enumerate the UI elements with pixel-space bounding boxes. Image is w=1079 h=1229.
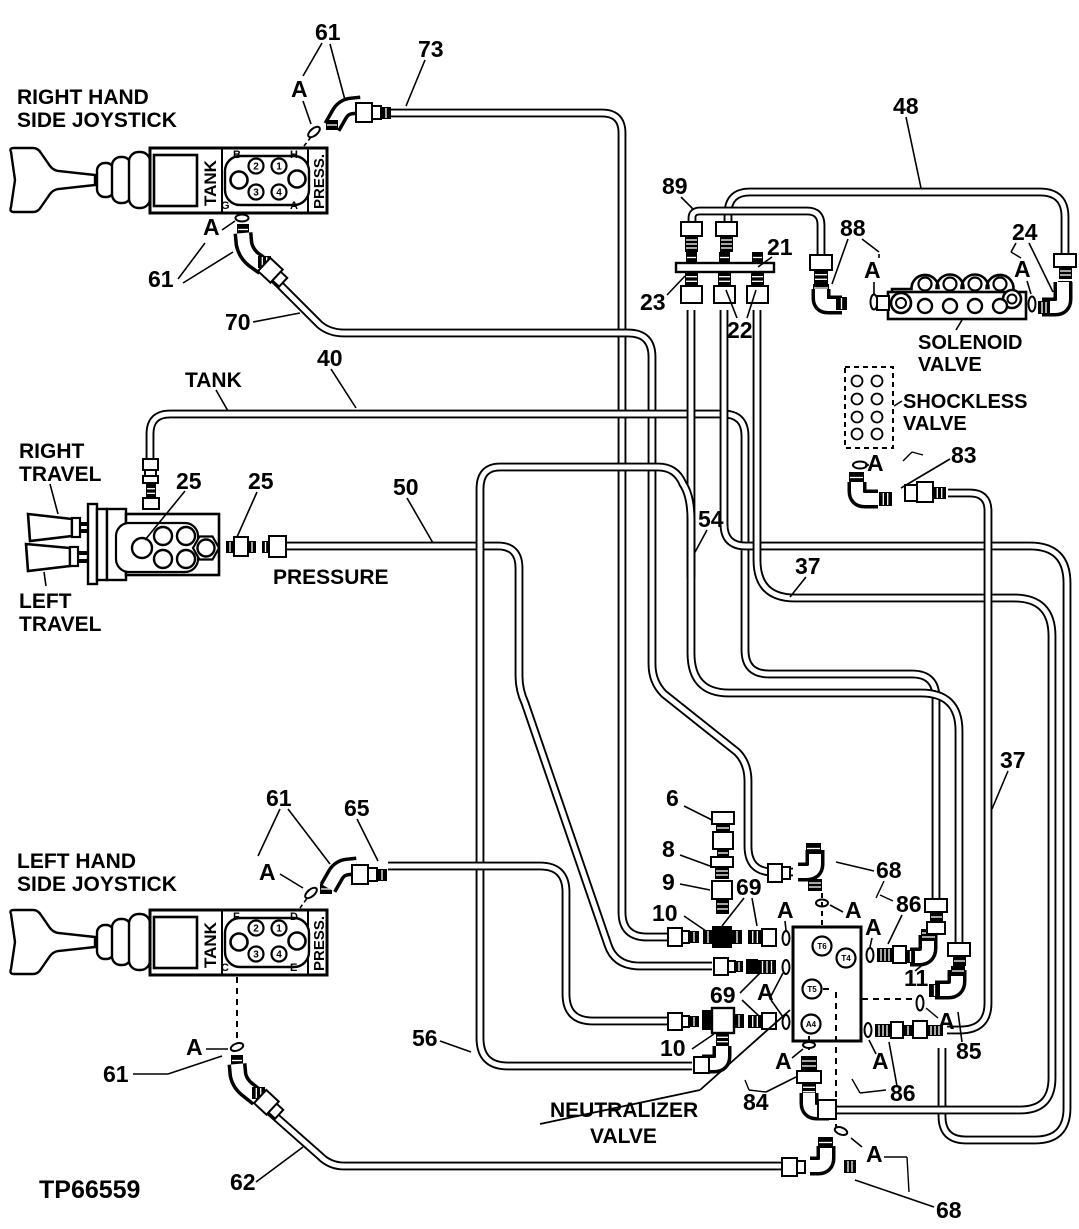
dashed T5 to oring right: [862, 998, 914, 1000]
o-ring A (rh top): [306, 125, 321, 139]
svg-text:A: A: [290, 200, 298, 212]
o-ring A (row3): [783, 1015, 790, 1029]
svg-text:24: 24: [1012, 219, 1038, 245]
fitting 10 stem: [716, 899, 729, 914]
svg-text:A: A: [259, 859, 276, 885]
hose 65: [388, 866, 670, 1021]
svg-text:LEFT HAND: LEFT HAND: [17, 850, 136, 873]
elbow fitting 68 (upper): [798, 843, 822, 891]
svg-text:37: 37: [1000, 747, 1026, 773]
elbow fitting 24: [1038, 282, 1063, 314]
solenoid valve left port: [877, 296, 889, 310]
svg-text:23: 23: [640, 289, 666, 315]
svg-text:VALVE: VALVE: [903, 413, 967, 435]
dashed to T6: [821, 893, 823, 927]
svg-text:54: 54: [698, 506, 724, 532]
o-ring A (86b): [865, 1023, 872, 1037]
svg-text:89: 89: [662, 173, 688, 199]
right travel pedal: [28, 514, 90, 541]
svg-text:50: 50: [393, 474, 419, 500]
joystick valve block: [150, 910, 327, 975]
svg-text:61: 61: [103, 1061, 129, 1087]
svg-text:PRESS.: PRESS.: [311, 154, 328, 209]
fitting stack above manifold (hose 89 end): [681, 222, 702, 252]
manifold bar 21: [676, 252, 774, 303]
dashed stem lh top: [300, 897, 308, 908]
neutralizer valve block: [793, 927, 861, 1041]
travel valve body: [107, 509, 219, 580]
svg-text:A: A: [864, 257, 881, 283]
hose 37: [757, 310, 1052, 1110]
fitting 8: [711, 857, 733, 879]
hose 70 end nuts: [768, 864, 790, 882]
svg-text:A: A: [186, 1034, 203, 1060]
hose 54: [724, 310, 1067, 1140]
tee fitting 10 (row1): [703, 926, 742, 948]
svg-text:21: 21: [767, 234, 793, 260]
elbow fitting 85: [929, 966, 965, 997]
svg-text:4: 4: [276, 950, 282, 961]
fitting 9: [712, 881, 732, 899]
o-ring A (88): [871, 295, 878, 310]
fitting stack above manifold (hose 48 end): [716, 222, 737, 252]
dashed stem rh top: [304, 137, 311, 146]
tee fitting 10 (row3, black): [702, 1008, 744, 1033]
svg-text:A: A: [866, 1141, 883, 1167]
elbow fitting 68 (lower): [810, 1137, 856, 1173]
svg-text:3: 3: [253, 188, 259, 199]
svg-text:6: 6: [666, 785, 679, 811]
svg-text:A: A: [775, 1048, 792, 1074]
svg-text:A: A: [867, 450, 884, 476]
hose 56: [480, 467, 692, 1066]
joystick handle: [10, 148, 95, 212]
joystick handle: [10, 910, 95, 974]
tee 10 stem down + elbow 56: [694, 1033, 729, 1073]
elbow fitting 83: [849, 472, 892, 506]
svg-text:61: 61: [315, 19, 341, 45]
svg-text:73: 73: [418, 36, 444, 62]
svg-text:22: 22: [727, 317, 753, 343]
svg-text:T6: T6: [817, 942, 827, 951]
svg-text:68: 68: [936, 1197, 962, 1223]
joystick valve block: [150, 148, 327, 213]
joystick bellows: [97, 152, 150, 208]
o-ring A (85): [917, 996, 924, 1011]
svg-text:83: 83: [951, 442, 977, 468]
svg-text:TRAVEL: TRAVEL: [19, 613, 102, 636]
svg-text:F: F: [233, 911, 240, 923]
svg-text:D: D: [290, 911, 298, 923]
o-ring A (lh bottom): [230, 1041, 245, 1052]
hose 40 tank: [150, 414, 936, 899]
o-ring A (86a): [867, 948, 874, 962]
svg-text:9: 9: [662, 869, 675, 895]
svg-text:LEFT: LEFT: [19, 590, 72, 613]
fitting 84 stack: [797, 1056, 821, 1096]
svg-text:56: 56: [412, 1025, 438, 1051]
svg-text:70: 70: [225, 309, 251, 335]
svg-text:H: H: [290, 149, 298, 161]
svg-text:2: 2: [253, 924, 259, 935]
svg-text:85: 85: [956, 1038, 982, 1064]
o-ring A (84): [803, 1042, 815, 1048]
travel valve ports: [116, 523, 219, 572]
o-ring A (row2): [783, 960, 790, 974]
hose 62 end nuts: [782, 1158, 805, 1176]
o-ring A (rh bottom): [236, 215, 249, 222]
elbow fitting 88: [813, 284, 847, 310]
left travel pedal: [26, 544, 90, 571]
svg-text:37: 37: [795, 553, 821, 579]
svg-text:1: 1: [276, 162, 282, 173]
fitting 86 (upper): [877, 946, 906, 963]
hose-end nuts 70: [258, 258, 289, 289]
svg-text:86: 86: [890, 1080, 916, 1106]
svg-text:B: B: [233, 149, 241, 161]
hose 70: [272, 277, 793, 872]
elbow fitting 61 (rh top): [326, 105, 361, 130]
svg-text:A: A: [845, 897, 862, 923]
svg-text:RIGHT: RIGHT: [19, 440, 85, 463]
row2 union fitting: [714, 958, 743, 975]
o-ring A (row1): [783, 931, 790, 945]
travel valve flange: [88, 504, 107, 584]
svg-text:VALVE: VALVE: [918, 354, 982, 376]
dashed T5 line: [823, 989, 836, 1128]
hose 62: [268, 1110, 782, 1166]
svg-text:11: 11: [904, 965, 929, 991]
hose 83 end nuts: [905, 482, 946, 502]
svg-text:RIGHT HAND: RIGHT HAND: [17, 86, 149, 109]
fitting 69 (row2, black): [746, 959, 776, 974]
elbow fitting 84: [809, 1093, 836, 1119]
joystick port plate: [221, 911, 309, 974]
svg-text:E: E: [290, 962, 297, 974]
fitting 86 (lower): [875, 1021, 943, 1038]
svg-text:48: 48: [893, 93, 919, 119]
svg-text:A: A: [777, 897, 794, 923]
svg-text:10: 10: [652, 900, 678, 926]
hose-end nuts 65: [352, 865, 387, 884]
svg-text:SIDE JOYSTICK: SIDE JOYSTICK: [17, 109, 177, 132]
svg-text:VALVE: VALVE: [590, 1125, 657, 1148]
svg-text:69: 69: [736, 874, 762, 900]
joystick port plate: [221, 149, 309, 212]
hose end nuts (85): [948, 943, 970, 966]
svg-text:4: 4: [276, 188, 282, 199]
solenoid valve: [888, 275, 1026, 320]
row3 union fitting: [668, 1013, 699, 1030]
hose-end nuts 62: [254, 1090, 285, 1121]
hose 48: [728, 192, 1065, 254]
svg-text:61: 61: [148, 266, 174, 292]
svg-text:A: A: [203, 214, 220, 240]
svg-text:A4: A4: [806, 1020, 817, 1029]
joystick bellows: [97, 914, 150, 970]
svg-text:SOLENOID: SOLENOID: [918, 332, 1022, 354]
svg-text:61: 61: [266, 785, 292, 811]
fitting 6: [712, 812, 734, 857]
svg-text:NEUTRALIZER: NEUTRALIZER: [550, 1099, 698, 1122]
svg-text:T4: T4: [841, 954, 851, 963]
fitting 69 (row1): [748, 929, 776, 946]
fitting nuts hose 48 end: [1054, 254, 1076, 292]
fitting nuts hose 89 lower: [810, 255, 832, 284]
pressure port fittings 25: [226, 537, 256, 556]
svg-text:2: 2: [253, 162, 259, 173]
fitting 69 (row3): [748, 1013, 776, 1029]
o-ring A (68 upper): [816, 900, 828, 907]
svg-text:PRESS.: PRESS.: [311, 916, 328, 971]
svg-text:SIDE JOYSTICK: SIDE JOYSTICK: [17, 873, 177, 896]
elbow fitting 61 (lh bottom): [231, 1055, 265, 1099]
svg-text:69: 69: [710, 982, 736, 1008]
hose 50 pressure: [286, 546, 712, 966]
svg-text:68: 68: [876, 857, 902, 883]
hose-end nuts 73: [356, 103, 391, 122]
svg-text:TANK: TANK: [201, 159, 220, 206]
dashed line lh bottom: [236, 977, 238, 1040]
svg-text:1: 1: [276, 924, 282, 935]
svg-text:A: A: [291, 76, 308, 102]
hose 40 end nuts: [925, 899, 947, 934]
shockless valve (dashed box): [845, 367, 893, 448]
svg-text:PRESSURE: PRESSURE: [273, 566, 389, 589]
hose 83 shockless: [947, 493, 988, 1030]
hose manifold mid: [691, 310, 959, 943]
hose 73: [390, 113, 670, 937]
o-ring A (lh top): [303, 886, 318, 900]
svg-text:86: 86: [896, 891, 922, 917]
svg-text:3: 3: [253, 950, 259, 961]
svg-text:65: 65: [344, 795, 370, 821]
svg-text:8: 8: [662, 836, 675, 862]
svg-text:40: 40: [317, 345, 343, 371]
o-ring A (24): [1029, 297, 1036, 312]
o-ring A (68 lower): [834, 1125, 849, 1136]
dashed A4 down: [808, 1036, 810, 1054]
svg-text:G: G: [221, 200, 230, 212]
svg-text:A: A: [865, 914, 882, 940]
svg-text:TRAVEL: TRAVEL: [19, 463, 102, 486]
elbow fitting 61 (rh bottom): [237, 224, 271, 268]
svg-text:TANK: TANK: [201, 921, 220, 968]
svg-text:TANK: TANK: [185, 369, 242, 392]
svg-text:25: 25: [176, 468, 202, 494]
svg-text:A: A: [1014, 256, 1031, 282]
svg-text:T5: T5: [807, 985, 817, 994]
svg-text:62: 62: [230, 1169, 256, 1195]
svg-text:TP66559: TP66559: [39, 1176, 140, 1204]
tank line fitting stack (travel valve): [143, 459, 159, 509]
svg-text:SHOCKLESS: SHOCKLESS: [903, 391, 1027, 413]
svg-text:84: 84: [743, 1089, 769, 1115]
svg-text:10: 10: [660, 1035, 686, 1061]
svg-text:C: C: [221, 962, 229, 974]
row1 union fitting: [668, 928, 699, 946]
elbow fitting 11: [906, 929, 936, 963]
hose 89: [692, 211, 821, 255]
svg-text:25: 25: [248, 468, 274, 494]
elbow fitting 61 (lh top): [320, 866, 357, 894]
svg-text:88: 88: [840, 215, 866, 241]
o-ring A (83): [853, 462, 867, 469]
